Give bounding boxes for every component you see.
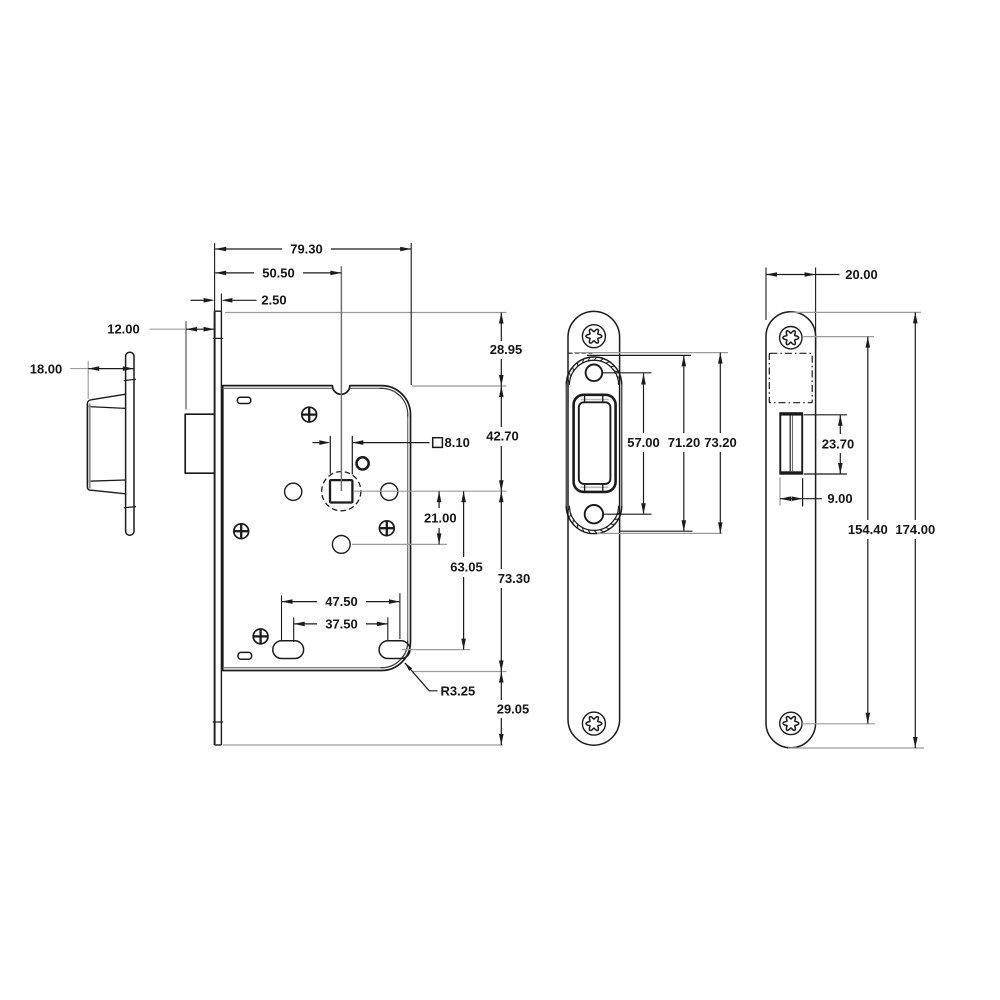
dimension 9.00 line xyxy=(780,496,822,501)
ext line: 20.00 right xyxy=(815,268,817,351)
svg-text:47.50: 47.50 xyxy=(325,594,358,609)
main view: case top inner edge line xyxy=(223,387,380,389)
dimension 57.00 text xyxy=(627,435,660,450)
ext line: 20.00 left xyxy=(765,268,767,321)
dimension 20.00 text xyxy=(845,267,878,282)
svg-text:18.00: 18.00 xyxy=(30,361,63,376)
svg-text:2.50: 2.50 xyxy=(261,293,286,308)
svg-text:79.30: 79.30 xyxy=(290,241,323,256)
ext line: 2.50 right (faceplate back extended up) xyxy=(220,294,222,312)
svg-text:73.20: 73.20 xyxy=(704,435,737,450)
dimension 154.40 text xyxy=(848,522,888,537)
dimension 9.00 text xyxy=(827,491,852,506)
svg-text:12.00: 12.00 xyxy=(107,322,140,337)
main view: faceplate bottom end xyxy=(215,744,222,746)
svg-text:21.00: 21.00 xyxy=(424,510,457,525)
main view: hole left of spindle xyxy=(285,483,302,500)
middle view: strike box left side edge xyxy=(565,385,567,506)
dimension 12.00 text xyxy=(107,322,140,337)
dimension 63.05 line xyxy=(461,491,466,649)
main view: pin hole small circle xyxy=(357,457,369,469)
middle view: torx screw top xyxy=(582,325,605,348)
dimension 21.00 text xyxy=(424,510,457,525)
dimension 8.10 extension line left xyxy=(329,436,331,474)
ext line: 79.30 left (faceplate front extended up) xyxy=(214,243,216,311)
svg-text:23.70: 23.70 xyxy=(822,436,855,451)
dimension 50.50 line xyxy=(215,271,341,276)
main view: case bottom-right inner corner arc xyxy=(381,641,408,668)
middle view: faceplate outer stadium xyxy=(568,311,620,745)
svg-text:R3.25: R3.25 xyxy=(441,683,476,698)
dimension 71.20 line xyxy=(682,355,687,531)
ext line: upper hole centerline (57.00) xyxy=(602,372,652,374)
main view: case bottom inner edge line xyxy=(223,667,381,669)
dimension 42.70 line xyxy=(499,386,504,491)
middle view: strike box bottom dome inner arc xyxy=(569,506,618,531)
ext line: top screw centerline (154.40) xyxy=(802,336,874,338)
ext line: strike inner top reference (71.20) xyxy=(587,354,691,356)
left view: faceplate bar (side profile) xyxy=(126,352,134,535)
dimension 8.10 line with outside arrows xyxy=(313,440,430,445)
main view: faceplate front edge line xyxy=(214,311,216,745)
middle view: latch top ticks xyxy=(585,395,603,402)
dimension 50.50 text xyxy=(262,265,295,280)
svg-text:63.05: 63.05 xyxy=(450,559,483,574)
middle view: strike box top dome outer arc xyxy=(566,357,622,385)
right view: torx screw top xyxy=(780,327,802,349)
main view: small slot bottom-left xyxy=(238,652,252,659)
dimension 21.00 line xyxy=(437,491,442,544)
middle view: latch face bottom shade line xyxy=(581,486,609,488)
dimension 57.00 line xyxy=(641,374,646,515)
main view: hole right of spindle xyxy=(381,483,398,500)
ext line: strike bottom reference (73.20) xyxy=(597,532,722,534)
dimension 12.00 leader xyxy=(150,328,187,330)
middle view: strike box bottom dome hatching xyxy=(567,508,621,533)
ext line: case bottom reference to dim column xyxy=(412,671,507,673)
main view: hole below spindle xyxy=(332,536,350,554)
dimension 23.70 line xyxy=(838,415,843,474)
dimension 79.30 line xyxy=(215,247,411,252)
ext line: strike inner bottom reference (71.20) xyxy=(619,530,693,532)
dimension 2.50 text xyxy=(261,293,286,308)
right view: latch bolt right edge xyxy=(801,413,803,474)
svg-text:42.70: 42.70 xyxy=(486,429,519,444)
right view: latch bolt inner line 1 xyxy=(789,416,791,472)
main view: faceplate break tick upper xyxy=(213,337,223,339)
dimension 174.00 line xyxy=(913,312,918,748)
dimension 47.50 ext lines xyxy=(282,593,400,640)
dimension 79.30 text xyxy=(290,241,323,256)
dimension 42.70 text xyxy=(486,429,519,444)
dimension 18.00 leader xyxy=(70,368,88,370)
main view: oval slot bottom-right xyxy=(379,641,410,659)
main view: phillips screw mid-left xyxy=(234,524,249,539)
dimension 8.10 text xyxy=(445,435,470,450)
dimension 37.50 ext lines xyxy=(294,617,388,642)
dimension 12.00 extension line at latch front xyxy=(185,321,187,409)
dimension 28.95 line xyxy=(499,313,504,387)
dimension 12.00 line xyxy=(186,327,215,332)
ext line: plate top reference (174.00) xyxy=(790,311,921,313)
ext line: 9.00 right xyxy=(802,478,804,506)
middle view: hidden dashed line at strike top xyxy=(569,352,594,354)
main view: phillips screw top xyxy=(302,407,317,422)
ext line: 79.30 right (case right edge extended up) xyxy=(410,243,412,385)
right view: latch bolt left edge xyxy=(779,413,781,474)
main view: lock case outline with corner radii and top notch xyxy=(223,386,411,671)
svg-text:73.30: 73.30 xyxy=(498,571,531,586)
ext line: plate bottom reference (174.00) xyxy=(788,747,924,749)
dimension 18.00 text xyxy=(30,361,63,376)
dimension 63.05 text xyxy=(450,559,483,574)
dimension 2.50 line and outside arrows xyxy=(191,298,257,303)
svg-text:9.00: 9.00 xyxy=(827,491,852,506)
dimension 28.95 text xyxy=(490,342,523,357)
dimension 8.10 square symbol xyxy=(433,438,443,448)
ext line: faceplate top reference y=312.5 xyxy=(225,312,507,314)
ext line: spindle centerline to dim column xyxy=(354,490,507,492)
svg-text:20.00: 20.00 xyxy=(845,267,878,282)
dimension 71.20 text xyxy=(668,435,701,450)
middle view: screw hole upper xyxy=(586,365,603,382)
right view: latch bolt bottom edge xyxy=(779,471,803,474)
main view: faceplate back edge line xyxy=(220,311,222,745)
dimension 20.00 line xyxy=(766,272,840,277)
left view: faceplate break line upper xyxy=(124,379,136,380)
dimension 29.05 text xyxy=(497,701,530,716)
left view: faceplate break line lower xyxy=(124,507,136,508)
middle view: latch bottom ticks xyxy=(585,484,603,492)
main view: spindle square hole xyxy=(330,480,352,502)
dimension 73.30 text xyxy=(498,571,531,586)
left view: lock case box top inner edge xyxy=(89,407,126,409)
main view: oval slot bottom-left xyxy=(273,641,304,659)
main view: latch bolt box xyxy=(185,414,214,473)
middle view: latch face top shade line xyxy=(581,399,609,401)
middle view: torx screw bottom xyxy=(582,712,605,735)
svg-text:154.40: 154.40 xyxy=(848,522,888,537)
right view: latch bolt inner line 2 xyxy=(792,416,794,472)
ext line: oval slot centerline xyxy=(402,649,470,651)
middle view: latch opening outer xyxy=(574,395,616,492)
svg-text:71.20: 71.20 xyxy=(668,435,701,450)
right view: torx screw bottom xyxy=(780,712,802,734)
dimension 73.20 line xyxy=(718,353,723,534)
svg-text:57.00: 57.00 xyxy=(627,435,660,450)
svg-text:29.05: 29.05 xyxy=(497,701,530,716)
ext line: lower hole centerline (57.00) xyxy=(603,513,652,515)
left view: lock case box outer contour xyxy=(87,394,125,494)
ext line: strike top reference (73.20) xyxy=(574,352,728,354)
ext line: bottom screw centerline (154.40) xyxy=(802,723,875,725)
ext line: 23.70 bottom xyxy=(804,473,847,475)
dimension 73.30 line xyxy=(499,491,504,671)
middle view: screw hole lower xyxy=(585,505,603,523)
dimension 18.00 line and arrows xyxy=(88,366,134,371)
middle view: latch opening inner xyxy=(579,402,611,484)
dimension 18.00 extension line xyxy=(87,361,89,399)
dimension 29.05 line xyxy=(499,672,504,746)
dimension 23.70 text xyxy=(822,436,855,451)
dimension 154.40 line xyxy=(866,337,871,724)
svg-text:37.50: 37.50 xyxy=(325,616,358,631)
ext line: 50.50 centerline through notch to spindle xyxy=(340,266,342,491)
ext line: case top reference to dim column xyxy=(412,385,507,387)
main view: small slot top-left xyxy=(237,397,250,403)
main view: case top-right inner corner arc xyxy=(380,388,408,416)
dimension 37.50 line xyxy=(294,622,388,627)
main view: spindle follower circle xyxy=(322,472,361,511)
dimension 73.20 text xyxy=(704,435,737,450)
main view: faceplate top end xyxy=(215,310,222,312)
ext line: lower hole centerline xyxy=(352,543,447,545)
main view: phillips screw mid-right xyxy=(379,521,394,536)
right view: latch bolt top edge xyxy=(779,412,803,415)
dimension 37.50 text xyxy=(325,616,358,631)
svg-text:28.95: 28.95 xyxy=(490,342,523,357)
ext line: faceplate bottom reference xyxy=(223,744,503,746)
dimension 8.10 extension line right xyxy=(351,436,353,475)
dimension 47.50 text xyxy=(325,594,358,609)
svg-text:174.00: 174.00 xyxy=(895,522,935,537)
left view: lock case box front (left) edge xyxy=(88,404,90,489)
ext line: 23.70 top xyxy=(804,414,847,416)
right view: dashed magnet square xyxy=(769,353,812,402)
leader R3.25 xyxy=(405,663,438,691)
right view: faceplate outer stadium xyxy=(766,312,816,748)
main view: phillips screw bottom-left xyxy=(253,629,268,644)
main view: faceplate break tick lower xyxy=(213,721,223,723)
R3.25 text xyxy=(441,683,476,698)
middle view: strike box right side edge xyxy=(621,385,623,506)
dimension 174.00 text xyxy=(895,522,935,537)
middle view: strike box bottom dome outer arc xyxy=(566,506,622,534)
ext line: 9.00 left xyxy=(779,477,781,505)
svg-text:50.50: 50.50 xyxy=(262,265,295,280)
main view: case right inner edge line xyxy=(407,417,409,641)
svg-text:8.10: 8.10 xyxy=(445,435,470,450)
left view: lock case box bottom inner edge xyxy=(89,480,126,481)
middle view: strike box top dome hatching xyxy=(567,357,621,382)
middle view: strike box top dome inner arc xyxy=(569,360,618,385)
dimension 47.50 line xyxy=(282,599,400,604)
